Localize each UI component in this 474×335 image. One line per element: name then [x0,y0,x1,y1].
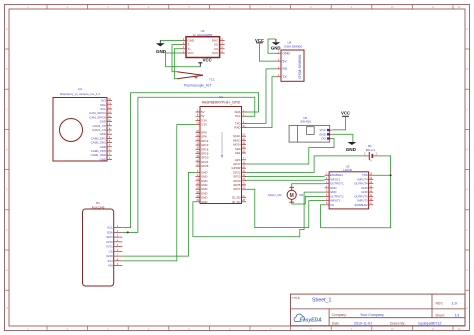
svg-text:Date:: Date: [332,321,340,325]
wire U1 3.3V to ADXL 3V3 [122,125,195,261]
svg-text:GP27: GP27 [233,187,241,191]
wire U1 GP27 to U3 INPUT2 [245,189,325,227]
camera module U2 Raspberry_pi_camera_rev_1.3 [53,87,112,161]
svg-text:D: D [466,148,468,152]
ground at U4 [271,39,281,50]
wire VCC to U4 5V [260,43,277,61]
wire U1 GND to ADXL GND [122,172,195,256]
svg-text:M: M [290,193,294,199]
op IC U6 IC_MAX31855 [181,29,225,58]
wire U4 GND [268,39,276,53]
svg-text:F: F [6,228,8,232]
wire ADXL SCL to U1 SDA [122,93,258,228]
svg-text:GND: GND [201,200,207,204]
wire U1 GP22 to battery [245,156,365,173]
svg-text:GND: GND [100,157,106,161]
svg-text:Raspberry_pi_camera_rev_1.3: Raspberry_pi_camera_rev_1.3 [60,92,100,96]
svg-text:C: C [6,107,8,111]
svg-text:Company:: Company: [332,313,347,317]
ground at U5 [346,134,357,152]
svg-text:SCL: SCL [235,114,241,118]
svg-text:H: H [466,306,468,310]
vibration sensor U5 SW-420 [289,116,332,142]
Raspberry Pi header U1 RASPBERRYPI-B+_GPIO [196,95,247,204]
svg-text:D: D [6,148,8,152]
junction at VSS [390,174,392,176]
svg-text:SCL: SCL [107,226,113,230]
svg-text:GND: GND [346,147,357,152]
svg-text:H: H [6,306,8,310]
svg-text:SDA: SDA [107,230,113,234]
wire ADXL SDA to U1 SCL [122,97,255,232]
wire U1 GP23 to U3 ENABLE1 [245,175,325,177]
svg-text:VCC: VCC [255,38,264,43]
svg-text:SW-420: SW-420 [300,119,311,123]
svg-text:Motor_DC: Motor_DC [268,193,283,197]
svg-text:C: C [466,107,468,111]
svg-text:A: A [466,27,468,31]
svg-text:SCK: SCK [212,51,218,55]
svg-text:CS: CS [109,249,113,253]
svg-text:GND: GND [283,52,291,56]
svg-text:rupalipatil0712: rupalipatil0712 [418,321,441,325]
svg-text:Sheet:: Sheet: [435,313,445,317]
svg-text:RX: RX [283,67,288,71]
power VCC flag at U5 [341,111,350,117]
EasyEDA logo [294,314,322,323]
svg-text:GSM SIM900: GSM SIM900 [284,45,302,49]
svg-text:1.0: 1.0 [452,301,458,306]
wire motor to U3 OUTPUT2 [292,196,325,204]
svg-text:GND: GND [156,49,167,54]
svg-text:VIN: VIN [108,264,113,268]
svg-text:Thermocouple_ALT: Thermocouple_ALT [184,84,212,88]
svg-text:Your Company: Your Company [360,313,384,317]
motor M1 Motor_DC [268,187,304,202]
svg-text:INT2: INT2 [106,240,113,244]
battery B1 BS-2-1 [364,144,378,162]
svg-text:G: G [466,268,468,272]
wire T- [172,45,181,72]
junction at ADXL SDA [127,231,129,233]
wire U1 GND to U3 GND [193,192,325,237]
svg-text:GND: GND [271,45,281,50]
svg-text:BS-2-1: BS-2-1 [366,148,376,152]
svg-text:3.3V: 3.3V [201,123,207,127]
svg-text:M1: M1 [299,193,303,197]
svg-text:GP26: GP26 [201,164,209,168]
svg-text:1/1: 1/1 [455,313,460,317]
wire battery to U3 VSS and VS [321,156,391,228]
svg-text:VS: VS [330,203,334,207]
svg-text:CE1: CE1 [235,151,241,155]
svg-text:VCC: VCC [341,111,350,116]
svg-text:P1: P1 [96,201,100,205]
ground at U6 [156,40,167,54]
wire U5 VCC [332,116,346,130]
wire U6 GND [160,39,181,41]
svg-text:REV:: REV: [436,302,444,306]
svg-text:B: B [6,67,8,71]
svg-text:B: B [466,67,468,71]
svg-text:VCC: VCC [188,51,194,55]
wire U1 GP24 to U3 INPUT1 [245,179,325,181]
svg-text:ID_SC: ID_SC [232,200,241,204]
svg-text:GND: GND [106,254,112,258]
svg-text:DO: DO [321,137,326,141]
svg-text:Sheet_1: Sheet_1 [312,297,331,303]
svg-text:U2: U2 [78,87,82,91]
accelerometer P1 ADXL345 [83,201,123,286]
svg-text:RASPBERRYPI-B+_GPIO: RASPBERRYPI-B+_GPIO [202,100,241,104]
svg-text:2019-11-01: 2019-11-01 [354,321,372,325]
svg-text:3V3: 3V3 [108,259,114,263]
svg-text:F: F [466,228,468,232]
title block [291,294,466,326]
wire T+ [174,49,181,79]
svg-text:+: + [370,159,372,163]
svg-text:SDO: SDO [106,235,113,239]
power VCC flag at U6 [198,57,211,66]
thermocouple TC1 [177,72,215,88]
wire U5 DO to U1 GP17 [245,139,334,165]
svg-text:TITLE:: TITLE: [292,296,301,300]
svg-text:G: G [6,268,8,272]
svg-text:2: 2 [364,153,366,156]
wire motor to U3 OUTPUT1 [292,184,325,188]
power VCC flag at U4 [255,38,264,43]
svg-text:E: E [466,188,468,192]
svg-text:VCC: VCC [203,57,212,62]
svg-text:ENABLE2: ENABLE2 [355,203,368,207]
motor driver U3 L293D [325,164,374,209]
svg-text:1: 1 [376,153,378,156]
svg-text:Drawn By:: Drawn By: [390,321,405,325]
svg-text:E: E [6,188,8,192]
wire U6 VCC to VCC flag [166,53,201,67]
wire U5 GND [332,134,353,142]
svg-text:TC1: TC1 [209,78,215,82]
svg-text:RXD: RXD [234,126,240,130]
GSM module U4 GSM SIM900 [276,41,304,82]
svg-text:INT1: INT1 [106,245,113,249]
wire U4 TX to U1 RXD [245,77,276,128]
svg-text:A: A [6,27,8,31]
svg-text:GSM SIM900: GSM SIM900 [297,54,302,79]
svg-text:EasyEDA: EasyEDA [300,317,323,323]
wire U4 RX to U1 TXD [245,69,276,124]
